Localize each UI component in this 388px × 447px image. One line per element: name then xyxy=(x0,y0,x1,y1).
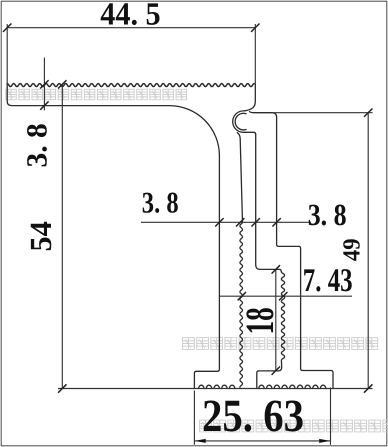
profile left outline: flange left end, underside, big fillet, wall, left foot, serrated bottom xyxy=(7,84,219,388)
svg-text:25. 63: 25. 63 xyxy=(202,389,304,441)
dim 18 line xyxy=(275,269,277,370)
dim 3.8 middle line xyxy=(141,221,311,223)
svg-text:44. 5: 44. 5 xyxy=(100,0,160,32)
profile central serrated wall B xyxy=(237,133,242,388)
dimension oblique tick marks xyxy=(3,24,372,393)
profile top flange serrated top edge xyxy=(7,84,254,87)
svg-text:54: 54 xyxy=(23,221,58,251)
svg-text:7. 43: 7. 43 xyxy=(303,261,353,298)
dim 49 line xyxy=(367,113,369,389)
svg-text:49: 49 xyxy=(337,238,365,261)
profile right outline: hook wall, ledge, serrated wall E, right foot xyxy=(256,135,285,389)
profile flange right edge, neck and hook cap xyxy=(233,84,256,134)
watermark company name rows (pseudo CJK glyphs) xyxy=(6,89,388,432)
base serrated bottom bumps xyxy=(259,385,326,388)
ext bottom shared 54/49 xyxy=(58,388,373,390)
dim 3.8 left line xyxy=(43,58,45,111)
svg-text:3. 8: 3. 8 xyxy=(20,123,53,167)
dim 54 line xyxy=(61,84,63,388)
ext 25.63 right xyxy=(330,388,332,445)
hook cap inner arc xyxy=(235,113,246,130)
dim 7.43 line xyxy=(219,295,352,297)
ext 25.63 left xyxy=(193,391,195,445)
arrowheads 25.63 xyxy=(194,439,205,443)
svg-text:18: 18 xyxy=(237,307,282,334)
svg-text:3. 8: 3. 8 xyxy=(142,186,179,220)
svg-text:3. 8: 3. 8 xyxy=(308,198,347,233)
ext left 44.5 xyxy=(6,24,8,84)
ext 49 top xyxy=(272,112,373,114)
profile base right block, wall F, wall D, step edge xyxy=(250,112,334,389)
dim 25.63 line xyxy=(194,440,330,442)
dim 44.5 line xyxy=(7,27,255,29)
left foot serrated bottom bumps xyxy=(199,385,235,388)
ext right 44.5 xyxy=(254,24,256,84)
